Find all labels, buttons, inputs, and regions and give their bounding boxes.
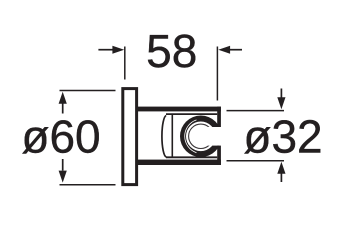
svg-text:58: 58 xyxy=(146,25,197,77)
C ring notch xyxy=(201,127,223,146)
svg-text:ø60: ø60 xyxy=(21,111,100,163)
dimension 58 left extension line xyxy=(124,47,126,80)
dimension 58 left arrow xyxy=(98,46,124,54)
C ring inner white xyxy=(186,122,216,152)
holder cavity floor line xyxy=(166,156,217,158)
dimension ø32 top arrow xyxy=(277,89,285,110)
holder knob edge line xyxy=(171,115,173,158)
dimension ø32 bottom arrow xyxy=(277,162,285,182)
dimension 58 right arrow xyxy=(218,46,242,54)
C ring thin inner circle xyxy=(189,124,213,148)
dimension 58 right extension line xyxy=(216,47,218,101)
holder knob lens xyxy=(162,116,166,158)
dimension ø32 bottom extension line xyxy=(227,160,285,162)
holder cavity ceiling line xyxy=(166,113,217,115)
dimension ø60 top arrow xyxy=(59,92,67,114)
holder body top bar xyxy=(136,107,221,112)
wall plate xyxy=(123,89,137,185)
holder front wall upper xyxy=(217,107,221,127)
holder front wall lower xyxy=(217,146,221,165)
holder C ring outer disc xyxy=(180,116,222,158)
dimension ø60 bottom extension line xyxy=(60,184,116,186)
dimension ø60 bottom arrow xyxy=(59,159,67,183)
C ring highlight arc xyxy=(185,120,197,153)
dimension ø32 top extension line xyxy=(227,110,285,112)
svg-text:ø32: ø32 xyxy=(243,111,322,163)
dimension ø60 top extension line xyxy=(60,90,116,92)
holder body bottom bar xyxy=(136,160,221,165)
